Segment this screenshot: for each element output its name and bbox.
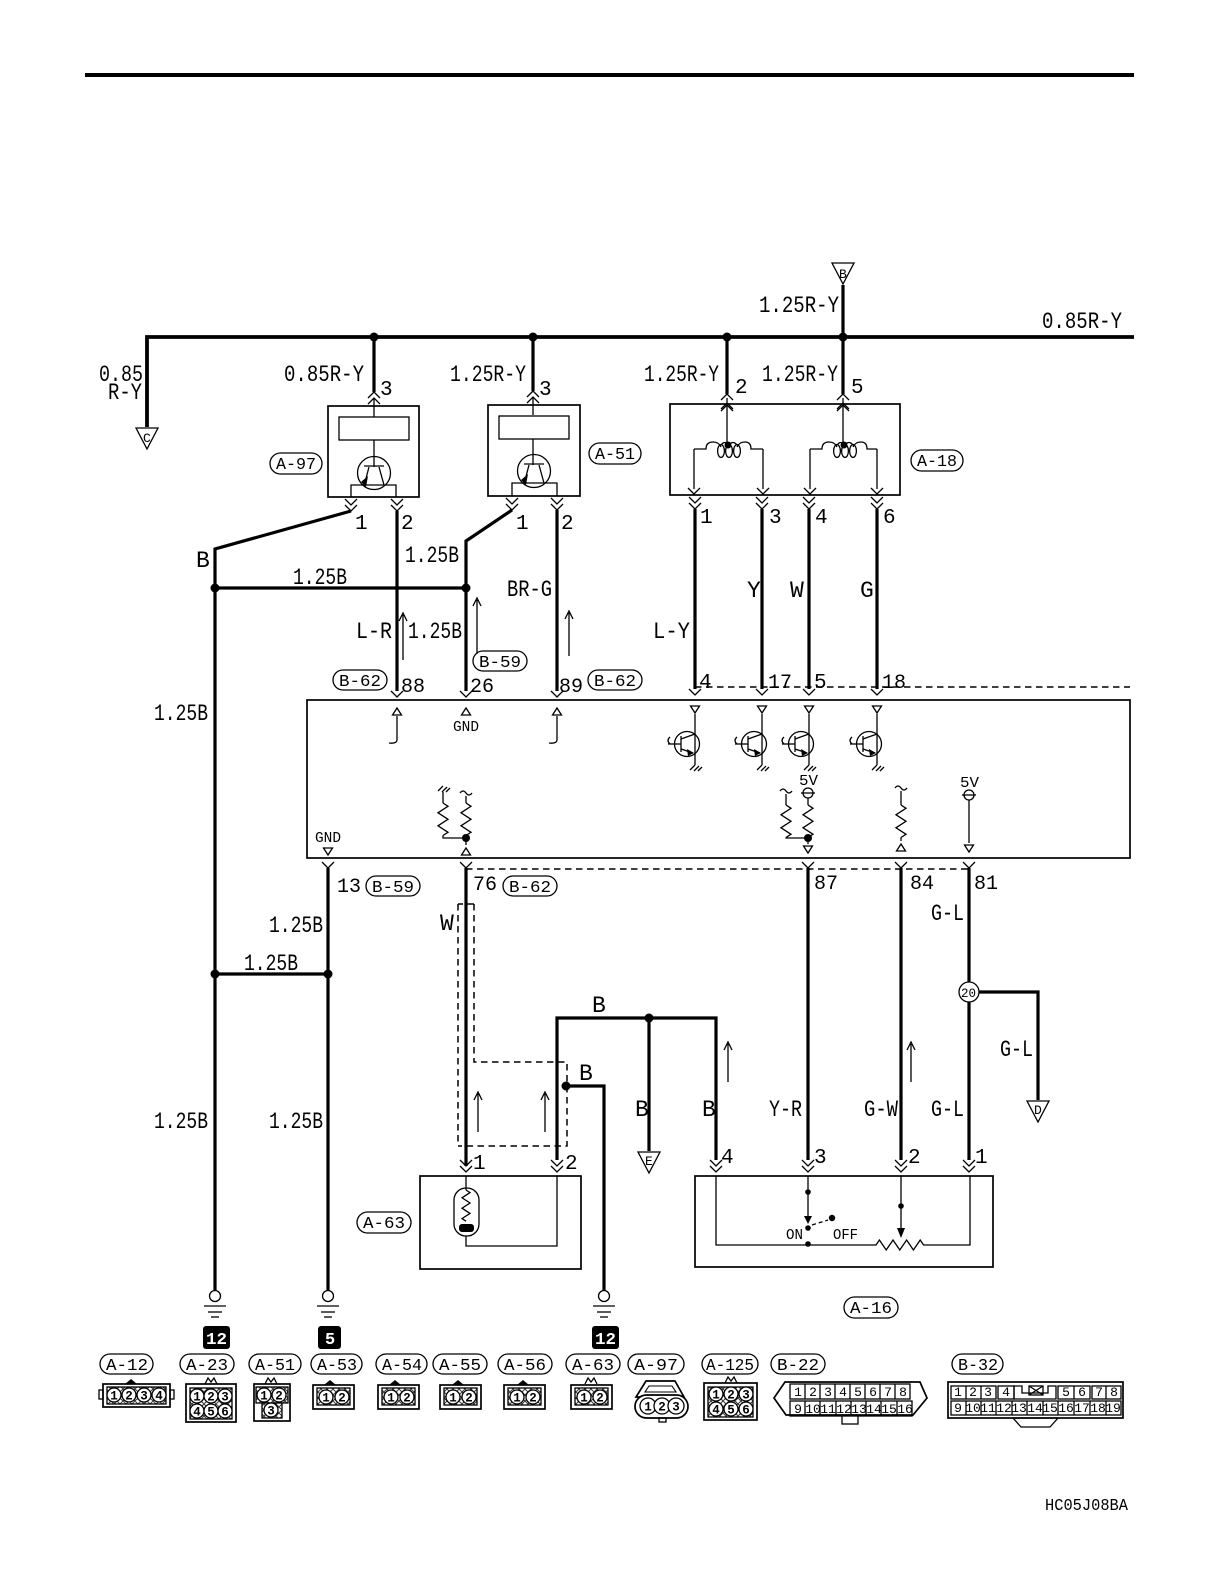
wire: bus drop to A-18 pin 2 [725, 337, 728, 394]
svg-text:B-59: B-59 [372, 879, 414, 898]
label oval A-97 [270, 453, 322, 474]
svg-text:A-63: A-63 [363, 1215, 405, 1234]
A-16 pin 1 fork and label [963, 1160, 975, 1172]
svg-text:1.25B: 1.25B [408, 619, 462, 645]
svg-text:3: 3 [221, 1391, 229, 1405]
svg-text:2: 2 [596, 1392, 604, 1406]
wire: 1.25B crosslink [215, 972, 328, 975]
svg-text:5: 5 [814, 672, 827, 695]
svg-text:6: 6 [742, 1404, 750, 1418]
svg-text:2: 2 [338, 1392, 346, 1406]
wire: to connector B [841, 285, 844, 337]
svg-text:1.25B: 1.25B [154, 701, 208, 727]
connector A-55 [433, 1354, 487, 1409]
svg-text:C: C [143, 431, 151, 446]
svg-text:3: 3 [267, 1405, 275, 1419]
svg-text:B-62: B-62 [509, 879, 551, 898]
svg-text:Y-R: Y-R [769, 1097, 802, 1123]
svg-text:L-R: L-R [356, 619, 392, 645]
svg-text:5: 5 [851, 377, 864, 400]
svg-text:6: 6 [1078, 1385, 1086, 1400]
svg-text:B: B [702, 1097, 716, 1123]
A-63 pin 1 fork and label [460, 1160, 472, 1172]
svg-text:A-125: A-125 [706, 1357, 754, 1376]
bulb symbol [454, 1188, 479, 1236]
component A-97 (solenoid valve) [328, 406, 419, 497]
connector triangle B [832, 263, 854, 284]
svg-text:4: 4 [721, 1147, 734, 1170]
svg-text:A-63: A-63 [572, 1357, 614, 1376]
component A-63 (light bulb) [420, 1176, 581, 1269]
svg-text:B-22: B-22 [777, 1357, 819, 1376]
wire: main R-Y bus [147, 337, 1134, 427]
A-18 pin 4 chevrons [803, 497, 815, 509]
svg-text:10: 10 [965, 1401, 981, 1416]
svg-text:B-59: B-59 [479, 654, 521, 673]
svg-text:1: 1 [473, 1153, 486, 1176]
resistor R3 at pin 87 [780, 789, 808, 838]
svg-text:Y: Y [747, 578, 761, 604]
dashed connector line above ECU top right [695, 686, 1130, 688]
5V supply at pin 87 [799, 773, 818, 844]
svg-text:HC05J08BA: HC05J08BA [1045, 1496, 1128, 1515]
connector A-54 [376, 1354, 427, 1409]
fork at pin2 inside [721, 405, 733, 411]
ground marker 5 (black) [318, 1326, 341, 1349]
label oval A-63 [357, 1212, 411, 1233]
wire: bus drop to A-18 pin 5 [841, 337, 844, 394]
inner wire from pin 4 [716, 1176, 809, 1245]
svg-text:1: 1 [193, 1391, 201, 1405]
svg-text:5: 5 [207, 1406, 215, 1420]
svg-text:3: 3 [672, 1401, 680, 1415]
resistor R2 at pin 76 [460, 791, 472, 845]
svg-text:G-L: G-L [1000, 1037, 1033, 1063]
svg-text:1: 1 [260, 1390, 268, 1404]
svg-text:1.25R-Y: 1.25R-Y [450, 362, 526, 388]
svg-text:12: 12 [595, 1331, 616, 1350]
connector A-97 [628, 1354, 688, 1422]
svg-text:B: B [592, 993, 606, 1019]
5V supply at pin 81 [960, 775, 979, 843]
svg-text:4: 4 [839, 1385, 847, 1400]
connector triangle D [1027, 1101, 1049, 1122]
svg-text:88: 88 [401, 676, 425, 699]
wire: ECU pin 13 down to ground [326, 868, 329, 1291]
svg-text:76: 76 [473, 874, 497, 897]
label oval A-51 [589, 443, 641, 464]
transistor symbol inside A-97 [358, 457, 391, 490]
A-18 pin 1 chevrons [689, 497, 701, 509]
connector A-63 [566, 1354, 620, 1409]
svg-text:3: 3 [742, 1389, 750, 1403]
node: bus junction at B drop [839, 333, 848, 342]
svg-text:17: 17 [1074, 1401, 1090, 1416]
direction arrow inside shield left [474, 1092, 482, 1132]
svg-text:B-32: B-32 [958, 1357, 998, 1376]
svg-text:1: 1 [580, 1392, 588, 1406]
connector B-22 [771, 1354, 927, 1424]
node: shield drain junction [562, 1082, 571, 1091]
potentiometer R [809, 1176, 970, 1250]
svg-text:2: 2 [529, 1392, 537, 1406]
svg-text:10: 10 [805, 1402, 821, 1417]
ground at pin 13 wire [317, 1291, 339, 1318]
wire Y-R: ECU pin 87 to A-16 pin 3 [806, 868, 809, 1160]
svg-text:6: 6 [221, 1406, 229, 1420]
svg-text:B-62: B-62 [339, 673, 381, 692]
A-51 pin 2 chevrons [551, 498, 563, 510]
svg-text:A-54: A-54 [382, 1357, 422, 1376]
wire G-W: ECU pin 84 to A-16 pin 2 [899, 868, 902, 1160]
resistor R4 at pin 84 [895, 786, 907, 841]
svg-text:2: 2 [561, 513, 574, 536]
svg-text:26: 26 [470, 676, 494, 699]
label oval A-16 [844, 1297, 898, 1318]
arrow up beside B wire to A-16 [724, 1042, 732, 1082]
svg-text:GND: GND [315, 830, 341, 847]
svg-text:11: 11 [820, 1402, 836, 1417]
wire: A-18 pin6 down to ECU (G) [875, 509, 878, 689]
A-18 pin 6 chevrons [871, 497, 883, 509]
svg-text:15: 15 [1042, 1401, 1058, 1416]
wire: A-18 pin4 down to ECU (W) [807, 509, 810, 689]
svg-text:4: 4 [1002, 1385, 1010, 1400]
wire G-L: joint to triangle D [979, 992, 1038, 1100]
A-16 pin 2 fork and label [895, 1160, 907, 1172]
svg-text:6: 6 [883, 507, 896, 530]
connector A-23 [180, 1354, 236, 1422]
svg-text:1.25B: 1.25B [154, 1109, 208, 1135]
svg-text:D: D [1034, 1103, 1042, 1118]
wire 1.25B horizontal [215, 586, 466, 589]
connector B-32 [948, 1354, 1123, 1427]
wire B: junction down to triangle E [647, 1018, 650, 1151]
wire: A-18 pin1 down to ECU (L-Y) [693, 509, 696, 689]
svg-text:1: 1 [644, 1401, 652, 1415]
connector A-125 [702, 1354, 758, 1420]
svg-text:3: 3 [984, 1385, 992, 1400]
svg-text:2: 2 [125, 1390, 133, 1404]
svg-text:1: 1 [700, 507, 713, 530]
svg-text:2: 2 [565, 1153, 578, 1176]
exit forks at ECU bottom edge [322, 862, 334, 868]
svg-text:1.25B: 1.25B [405, 543, 459, 569]
svg-text:R-Y: R-Y [108, 380, 142, 406]
A-97 pin 2 chevrons [391, 499, 403, 511]
svg-text:1: 1 [449, 1392, 457, 1406]
label oval B-62 at pin 88 [333, 670, 387, 690]
svg-text:L-Y: L-Y [653, 619, 690, 645]
svg-text:A-16: A-16 [850, 1300, 892, 1319]
svg-text:A-97: A-97 [276, 456, 316, 475]
svg-text:11: 11 [980, 1401, 996, 1416]
svg-text:W: W [440, 911, 454, 937]
svg-text:2: 2 [727, 1389, 735, 1403]
svg-text:81: 81 [974, 873, 998, 896]
A-51 pin 1 chevrons [506, 498, 518, 510]
component A-51 (solenoid valve) [488, 405, 580, 496]
A-18 pin 3 chevrons [756, 497, 768, 509]
svg-text:4: 4 [699, 672, 712, 695]
A-16 pin 4 fork and label [710, 1160, 722, 1172]
resistor R1 (grounded) at pin 76 [438, 786, 466, 838]
arrow up beside G-W wire [907, 1042, 915, 1082]
svg-text:2: 2 [275, 1390, 283, 1404]
svg-text:14: 14 [866, 1402, 882, 1417]
svg-text:G: G [860, 578, 874, 604]
svg-text:A-18: A-18 [917, 453, 957, 472]
svg-text:1: 1 [954, 1385, 962, 1400]
svg-text:A-23: A-23 [186, 1357, 228, 1376]
svg-text:3: 3 [824, 1385, 832, 1400]
svg-text:5: 5 [727, 1404, 735, 1418]
svg-text:1: 1 [355, 513, 368, 536]
ground at left 1.25B wire [204, 1291, 226, 1318]
wire: A-51 pin1 to junction and down to ECU pin 26 [466, 510, 512, 691]
switch SW [807, 1176, 809, 1192]
A-63 pin 2 fork and label [551, 1160, 563, 1172]
svg-text:4: 4 [155, 1390, 163, 1404]
svg-text:4: 4 [712, 1404, 720, 1418]
svg-text:2: 2 [658, 1401, 666, 1415]
svg-text:1.25R-Y: 1.25R-Y [762, 362, 838, 388]
component A-18 (coil pack) [670, 404, 900, 495]
wire: bus drop to A-97 pin 3 [372, 337, 375, 392]
svg-text:B: B [196, 548, 210, 574]
svg-text:2: 2 [207, 1391, 215, 1405]
connector A-51 [249, 1354, 301, 1421]
wire B horizontal to A-16 pin 4 [557, 1018, 716, 1160]
joint connector circle 20 [959, 982, 979, 1002]
svg-text:1: 1 [322, 1392, 330, 1406]
svg-text:G-L: G-L [931, 901, 964, 927]
wire W: ECU pin 76 down to A-63 pin 1 [464, 868, 467, 1166]
svg-text:19: 19 [1105, 1401, 1121, 1416]
svg-text:89: 89 [559, 676, 583, 699]
svg-text:A-51: A-51 [255, 1357, 295, 1376]
wire: left 1.25B down to ground [213, 588, 216, 1291]
svg-text:17: 17 [768, 672, 792, 695]
svg-text:3: 3 [814, 1147, 827, 1170]
svg-text:13: 13 [1011, 1401, 1027, 1416]
wire: A-97 pin2 down to ECU pin 88 (L-R) [395, 511, 398, 691]
wire G-L: ECU pin 81 to A-16 pin 1 [967, 868, 970, 1160]
pin 88 internal arrow [389, 708, 402, 743]
svg-text:1: 1 [975, 1147, 988, 1170]
svg-text:8: 8 [899, 1385, 907, 1400]
svg-text:3: 3 [380, 379, 393, 402]
svg-text:G-W: G-W [864, 1097, 898, 1123]
arrow up beside wire 89 [565, 611, 573, 656]
svg-text:14: 14 [1027, 1401, 1043, 1416]
svg-text:1: 1 [516, 513, 529, 536]
pin 89 internal arrow [549, 708, 562, 743]
entry forks at ECU top edge [391, 691, 403, 697]
svg-text:B: B [635, 1097, 649, 1123]
svg-text:18: 18 [882, 672, 906, 695]
svg-text:B: B [839, 267, 847, 282]
svg-text:A-53: A-53 [317, 1357, 357, 1376]
svg-text:16: 16 [1058, 1401, 1074, 1416]
svg-text:A-12: A-12 [106, 1357, 148, 1376]
svg-text:9: 9 [794, 1402, 802, 1417]
pin 26 internal GND [462, 708, 471, 715]
svg-text:12: 12 [836, 1402, 852, 1417]
A-16 pin 3 fork and label [802, 1160, 814, 1172]
node: bus junction at A-97 drop [370, 333, 379, 342]
svg-text:BR-G: BR-G [507, 577, 552, 603]
svg-text:3: 3 [140, 1390, 148, 1404]
svg-text:13: 13 [851, 1402, 867, 1417]
svg-text:6: 6 [869, 1385, 877, 1400]
node: bus junction at A-51 drop [529, 333, 538, 342]
svg-text:3: 3 [539, 379, 552, 402]
ground marker 12 (black) [203, 1326, 230, 1349]
component A-16 (switch + potentiometer) [695, 1176, 993, 1267]
svg-text:2: 2 [735, 377, 748, 400]
svg-text:A-51: A-51 [595, 446, 635, 465]
svg-text:2: 2 [403, 1392, 411, 1406]
svg-text:12: 12 [996, 1401, 1012, 1416]
svg-text:16: 16 [897, 1402, 913, 1417]
svg-text:G-L: G-L [931, 1097, 964, 1123]
wire B: shield drain to ground [566, 1086, 604, 1291]
wire: bus drop to A-51 pin 3 [531, 337, 534, 391]
transistor Q4 at pin 18 [850, 706, 884, 771]
ground at shield B wire [593, 1291, 615, 1318]
wiper from pin 2 [900, 1176, 902, 1228]
transistor Q1 at pin 4 [668, 706, 702, 771]
node: bus junction at A-18 pin2 drop [723, 333, 732, 342]
svg-text:2: 2 [969, 1385, 977, 1400]
svg-text:7: 7 [1095, 1385, 1103, 1400]
svg-text:GND: GND [453, 719, 479, 736]
connector triangle C [136, 428, 158, 449]
inductor L1 [688, 442, 769, 494]
dashed connector line below ECU bottom [466, 868, 969, 870]
svg-text:2: 2 [809, 1385, 817, 1400]
svg-text:1: 1 [794, 1385, 802, 1400]
svg-text:A-55: A-55 [439, 1357, 481, 1376]
svg-text:1.25B: 1.25B [244, 951, 298, 977]
svg-text:2: 2 [401, 513, 414, 536]
connector A-12 [99, 1354, 174, 1407]
svg-text:9: 9 [954, 1401, 962, 1416]
fork at pin5 inside [837, 405, 849, 411]
label oval B-59 at pin 26 [473, 651, 527, 671]
svg-text:4: 4 [193, 1406, 201, 1420]
connector A-53 [311, 1354, 362, 1409]
svg-text:1.25B: 1.25B [269, 1109, 323, 1135]
svg-text:1: 1 [110, 1390, 118, 1404]
svg-text:8: 8 [1110, 1385, 1118, 1400]
svg-text:0.85R-Y: 0.85R-Y [1042, 309, 1122, 335]
svg-text:84: 84 [910, 873, 934, 896]
svg-text:3: 3 [769, 507, 782, 530]
inductor L2 [804, 442, 883, 494]
transistor symbol inside A-51 [518, 455, 551, 488]
connector triangle E [638, 1152, 660, 1173]
wire: A-18 pin3 down to ECU (Y) [760, 509, 763, 689]
wire: A-51 pin2 down to ECU pin 89 (BR-G) [555, 510, 558, 691]
svg-text:W: W [790, 578, 804, 604]
svg-text:1.25B: 1.25B [269, 913, 323, 939]
svg-text:5: 5 [325, 1331, 335, 1350]
svg-text:20: 20 [961, 987, 976, 1001]
svg-text:1: 1 [712, 1389, 720, 1403]
svg-text:1.25B: 1.25B [293, 565, 347, 591]
shield (dashed) around W wire [458, 904, 567, 1146]
wire B: A-97 pin1 to left bus [215, 511, 351, 588]
direction arrow inside shield right [541, 1092, 549, 1132]
svg-text:1.25R-Y: 1.25R-Y [644, 362, 719, 388]
transistor Q2 at pin 17 [735, 706, 769, 771]
svg-text:5: 5 [1062, 1385, 1070, 1400]
svg-text:12: 12 [206, 1331, 227, 1350]
svg-text:1: 1 [513, 1392, 521, 1406]
svg-text:1.25R-Y: 1.25R-Y [759, 293, 839, 319]
svg-text:B: B [579, 1061, 593, 1087]
svg-text:87: 87 [814, 873, 838, 896]
svg-text:5: 5 [854, 1385, 862, 1400]
arrow up beside wire 88 [399, 613, 407, 660]
svg-text:2: 2 [465, 1392, 473, 1406]
svg-text:2: 2 [908, 1147, 921, 1170]
arrow up beside wire 26 [473, 598, 481, 654]
svg-text:1: 1 [387, 1392, 395, 1406]
ECU box [307, 700, 1130, 858]
label oval A-18 [911, 450, 963, 471]
svg-text:4: 4 [815, 507, 828, 530]
svg-text:E: E [645, 1154, 653, 1169]
svg-text:13: 13 [337, 876, 361, 899]
svg-text:15: 15 [881, 1402, 897, 1417]
svg-text:A-56: A-56 [504, 1357, 546, 1376]
transistor Q3 at pin 5 [782, 706, 816, 771]
svg-text:A-97: A-97 [634, 1357, 678, 1376]
svg-text:OFF: OFF [833, 1227, 858, 1244]
ground marker 12 (black) [592, 1326, 619, 1349]
top rule [85, 73, 1134, 77]
connector A-56 [498, 1354, 552, 1409]
A-97 pin 1 chevrons [345, 499, 357, 511]
svg-text:B-62: B-62 [594, 673, 636, 692]
svg-text:7: 7 [884, 1385, 892, 1400]
svg-text:18: 18 [1090, 1401, 1106, 1416]
svg-text:0.85R-Y: 0.85R-Y [284, 362, 364, 388]
svg-text:ON: ON [786, 1227, 803, 1244]
